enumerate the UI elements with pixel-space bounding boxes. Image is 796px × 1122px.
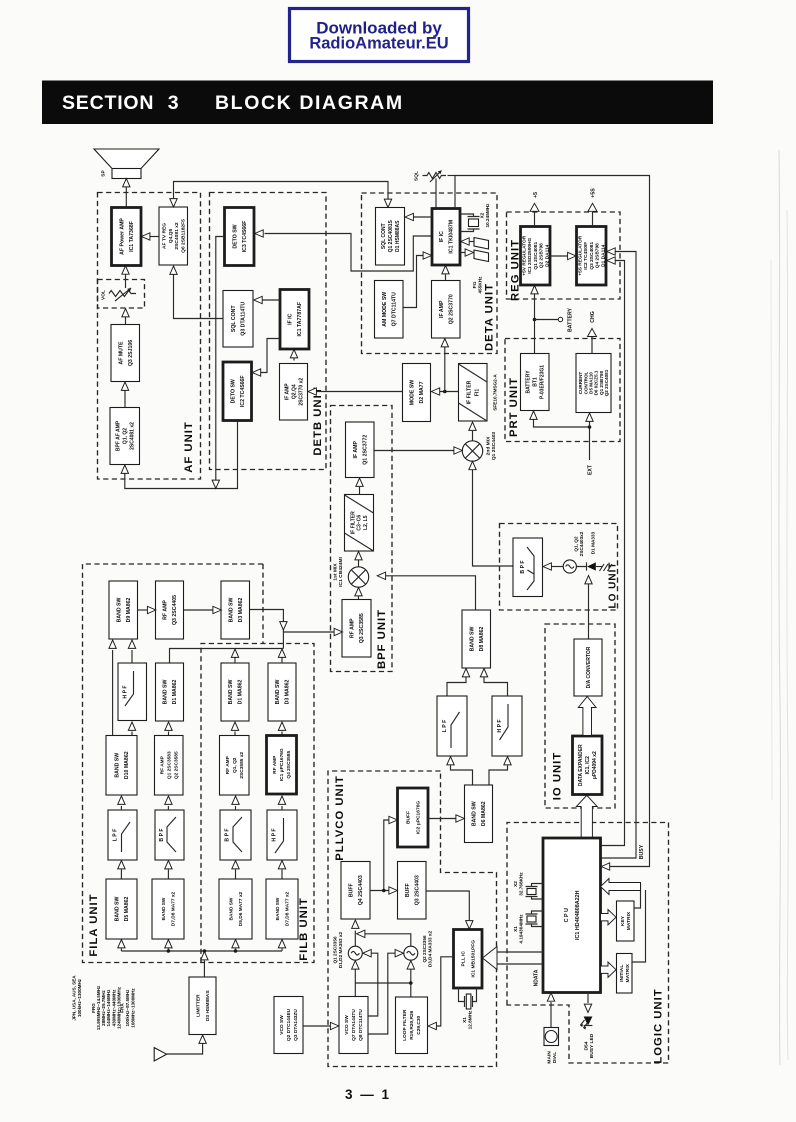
block H P F (LO) [492,696,522,756]
arrowhead into RF AMP BPF left [334,628,342,635]
wire junction to MODE SW [439,391,459,393]
arrowhead into D1b bottom [231,722,238,730]
block IF IC IC1 TA7787AF [280,290,309,350]
arrowhead CHG output [588,329,597,337]
mixer 1st MIX IC1 CB424MI [348,567,368,587]
unit box IO UNIT [545,624,615,808]
wire vco junction to BUFF IC2 [384,820,390,891]
unit box PRT UNIT [505,339,620,442]
svg-text:Q1 2SC3356D1,D2 MA353 x2: Q1 2SC3356D1,D2 MA353 x2 [332,932,343,969]
block L P F (FILA) [108,810,137,860]
block RF AMP Q3 2SC4405 [156,581,184,639]
svg-text:1st MIXIC1 CB424MI: 1st MIXIC1 CB424MI [332,557,344,587]
arrowhead into VOL pot [122,309,129,317]
arrowhead into band sw row5 [118,940,125,948]
wire IF IC to filter [460,252,466,254]
wire IF IC TKI0487M to DETO SW IC3 [265,234,433,272]
block MODE SW D2 MA77 [403,364,431,422]
oscillator Q1 Q2 LO [563,560,576,573]
arrowhead into 1st MIX right [377,572,385,579]
arrowhead into BUFF IC2 left [389,816,397,823]
wire into CURRENT CONTROL [589,422,591,428]
block DETO SW IC3 TC4S66F [225,208,255,266]
arrowhead +5S output [588,203,597,211]
wire D6 to HPF [489,766,508,786]
fat arrow DATA EXPANDER to D/A [578,697,596,736]
svg-text:BLOCK DIAGRAM: BLOCK DIAGRAM [215,92,404,114]
wire VCO2 merge [365,934,411,946]
svg-text:PLLVCO UNIT: PLLVCO UNIT [334,775,346,860]
wire bus riser [235,949,237,952]
block CURRENT CONTROL [576,354,611,413]
block DETO SW IC2 TC4S66F [223,362,252,421]
block INITIAL MATRIX [617,954,633,994]
wire VCO SW to VCO1 [368,953,378,1016]
svg-text:D/A CONVERTOR: D/A CONVERTOR [586,646,592,688]
block H P F (FILB) [267,810,297,860]
wire battery tap [535,319,559,321]
arrowhead led arrow [584,1004,591,1012]
wire FILA D3 to RF AMP BPF [250,610,335,649]
wire IF FILTER to IF AMP [359,487,361,495]
SQL potentiometer [423,173,447,179]
arrowhead into IF FILTER FI1 bottom [469,422,476,430]
block SQL CONT Q3 DTA114TU [223,291,253,348]
arrowhead into BUFF Q3 left [389,887,397,894]
svg-text:BATTERY: BATTERY [567,308,573,332]
wire VCO1 bottom link [355,963,411,998]
wire bus +5S line B [601,252,637,859]
arrowhead into band sw row5 [165,940,172,948]
svg-text:B P F: B P F [159,828,165,841]
main dial encoder [544,1028,559,1046]
block D/A CONVERTOR [574,639,602,696]
block SQL CONT Q1 D1 [376,208,405,266]
block LIMITTER D3 HSM88AS [189,977,216,1035]
svg-text:DETA UNIT: DETA UNIT [483,283,495,351]
block CPU IC1 HD404808A22H [543,838,601,993]
arrowhead into AF TV REG top [170,199,177,207]
svg-text:IO UNIT: IO UNIT [551,752,563,800]
block RF AMP Q1 Q2 3585x2 [220,736,250,796]
unit box LOGIC UNIT [507,823,669,1064]
wire 1st MIX to IF FILTER [358,560,360,567]
junction dot [167,949,171,953]
wire DETO SW IC3 output down [216,237,225,481]
arrowhead into AF TV REG bottom [170,266,177,274]
block BPF AF AMP Q1 Q2 [110,408,140,465]
svg-text:LOGIC UNIT: LOGIC UNIT [652,988,664,1063]
wire LPF riser to D8 [447,677,466,696]
svg-text:D54BUSY LED: D54BUSY LED [583,1033,595,1058]
arrowhead into band sw row5 [232,940,239,948]
wire HPF FILA to D9 [131,650,133,663]
wire battery rail [534,294,536,354]
arrowhead into band bus d1b [231,649,238,657]
block IF AMP Q1 2SC3772 [346,422,375,478]
arrowhead into AF line [212,480,219,488]
block BAND SW D8 MA862 [462,610,491,668]
arrowhead into DETO SW IC2 [252,369,260,376]
block BAND SW D3 MA862 b [268,663,296,721]
arrowhead into BUFF Q4 bottom [352,920,359,928]
svg-text:CHG: CHG [590,311,596,323]
svg-text:FRA100kHz~87.5MHz108MHz~1300MH: FRA100kHz~87.5MHz108MHz~1300MHz [120,988,136,1028]
wire KEY MATRIX loop [634,883,641,908]
arrowhead into IF IC bottom [442,266,449,274]
wire BUFF IC2 to BAND SW D6 [428,818,457,820]
arrowhead into IF AMP DETB right [308,388,316,395]
arrowhead into RF AMP 4405 [147,606,155,613]
unit box BPF UNIT [331,406,393,672]
svg-text:AF UNIT: AF UNIT [183,421,195,473]
svg-text:2nd MIXQ1 2SC4403: 2nd MIXQ1 2SC4403 [485,432,497,461]
block B P F (FILB) [220,810,251,860]
arrowhead into +5S REGULATOR right a [607,257,615,264]
wire DA convertor to LO [588,584,590,639]
svg-text:Q1, Q22SC4403x2: Q1, Q22SC4403x2 [573,531,584,556]
block IF AMP Q2 Q4 2SC3770 x2 [280,364,308,421]
wire SQL pot to IF IC [435,179,437,209]
junction dot [443,390,447,394]
block IF FILTER FI1 10.7MHz [459,364,488,422]
svg-text:B P F: B P F [520,560,526,573]
arrowhead into AF Power AMP bottom [122,266,129,274]
svg-text:3 — 1: 3 — 1 [345,1087,391,1102]
arrowhead into HPF FILA bottom [128,722,135,730]
svg-text:FI1455KHz: FI1455KHz [472,276,483,294]
wire BPF AF AMP to AF MUTE [124,391,126,408]
arrowhead into AF MUTE bottom [121,382,128,390]
wire D1b riser [234,658,236,664]
fat arrow CPU to INITIAL MATRIX [601,962,617,977]
arrowhead into speaker [123,179,130,187]
unit box LO UNIT [500,524,618,611]
wire filter to IF IC [468,241,474,243]
arrowhead into +5S REGULATOR [568,252,576,259]
crystal X1 4.194304MHz [526,911,544,927]
antenna symbol [154,1048,166,1061]
wire +5 supply arrow [534,212,536,227]
wire SQL CONT Q3 to AF TV REG [174,275,224,319]
arrowhead into CPU busy pin [601,863,609,870]
arrowhead into row4 d5 [118,861,125,869]
arrowhead into BPF AF AMP bottom [121,465,128,473]
svg-text:SP: SP [101,170,107,177]
wire junction up to IF AMP DETA [444,347,446,392]
wire row4 to row3 bpf b [235,806,237,810]
wire AF Power AMP to speaker [125,186,127,208]
scan bleed-through streaks (decorative) [779,150,781,1065]
block BUFF Q3 2SC4403 [398,862,427,920]
arrowhead into D9 bottom right [128,640,135,648]
arrowhead band bus down arrow [280,622,287,630]
svg-text:EXT: EXT [587,464,593,475]
arrowhead into +5S REGULATOR right b [607,248,615,255]
arrowhead into VCO1 right [363,950,371,957]
svg-text:SQL: SQL [414,171,420,181]
ceramic filter FI1 [474,238,489,262]
wire row4 to row3 lpf a [120,806,122,810]
arrowhead into D1a bottom [165,722,172,730]
svg-text:CURRENTCONTROLD5 MA110D6 02CZ5: CURRENTCONTROLD5 MA110D6 02CZ5.1Q1 2SB79… [578,369,609,396]
arrowhead into CURRENT CONTROL bottom [586,413,593,421]
arrowhead into 1st MIX bottom [355,588,362,596]
block BAND SW D6 MA862 [465,785,493,843]
svg-text:JPN, USA, AUS, SEA100kHz~1300M: JPN, USA, AUS, SEA100kHz~1300MHz [71,975,82,1021]
ground hatch [600,564,613,571]
wire CPU to PLL IC data b [497,963,543,965]
svg-text:H P F: H P F [122,685,128,698]
arrowhead into SQL CONT Q1 [405,213,413,220]
arrowhead into 2nd MIX bottom [469,461,476,469]
arrowhead into CPU bottom [547,993,554,1001]
wire LO BPF to 2nd MIX [473,470,514,566]
wire INITIAL MATRIX loop [632,890,646,962]
block KEY MATRIX [617,901,635,941]
block RF AMP Q1 Q2 3583 [155,736,184,796]
crystal X2 32.768KHz [526,884,544,900]
arrowhead into VCO1 riser [357,930,365,937]
wire row4 to row3 hpf b [281,806,283,810]
svg-text:Q2 2SC3356D3,D4 MA333 x2: Q2 2SC3356D3,D4 MA333 x2 [422,931,433,968]
svg-text:INITIALMATRIX: INITIALMATRIX [619,963,631,982]
block PLL IC IC1 MB1501PFG [454,930,483,989]
wire D10 to D9 left [112,650,114,736]
wire VCO SW to VCO2 [368,953,396,1034]
oscillator VCO2 Q2 2SC3356 [404,946,418,960]
wire CPU to busy led [587,993,589,1004]
arrowhead into row3 lpf a [118,796,125,804]
arrowhead into VCO2 bottom [407,961,414,969]
arrowhead into LIMITTER bottom [199,1035,206,1043]
oscillator VCO1 Q1 2SC3356 [348,946,362,960]
svg-text:SECTION 3: SECTION 3 [62,92,179,114]
wire bus riser [167,949,169,952]
VOL control box [98,280,145,309]
arrowhead into IF FILTER bottom [355,552,362,560]
svg-text:RadioAmateur.EU: RadioAmateur.EU [309,35,448,53]
arrowhead into filter [465,249,473,256]
junction dot [382,889,386,893]
block RF AMP Q3 2SC3585 [342,600,371,658]
block BAND SW D10 MA862 [106,736,137,796]
wire CHG line [591,337,593,354]
svg-text:X14.194304MHz: X14.194304MHz [513,914,524,944]
crystal X2 10.245MHz [460,214,480,232]
wire D10 to HPF FILA [131,732,133,736]
wire RF AMP to 1st MIX [358,596,360,600]
svg-text:FILA UNIT: FILA UNIT [88,893,100,956]
arrowhead into IF IC left [423,252,431,259]
block BAND SW D3 MA862 a [221,581,250,639]
arrowhead into LPF bottom [447,757,454,765]
wire BUFF Q4 to BUFF Q3 [370,890,390,892]
block LOOP FILTER [396,997,428,1054]
block +5S REGULATOR [577,227,607,286]
wire bus +5S line A [601,261,625,846]
wire AF MUTE to pot [125,317,127,325]
block BUFF Q4 2SC4403 [341,862,370,920]
wire +5S supply arrow [592,212,594,227]
block BAND SW D9 MA862 [109,581,138,639]
wire D3b riser [281,658,283,664]
arrowhead into HPF bottom [504,757,511,765]
arrowhead into BAND SW D6 left [456,815,464,822]
unit box AF UNIT [98,193,201,480]
arrowhead into 2nd MIX left [454,447,462,454]
arrowhead into D8 bottom left [462,669,469,677]
speaker SP [94,149,159,179]
arrowhead into IF IC right [461,238,469,245]
arrowhead into IF AMP DETA bottom [441,339,448,347]
arrowhead into row3 hpf b [278,796,285,804]
block AM MODE SW Q7 DTC114TU [375,281,404,339]
svg-text:B P F: B P F [224,828,230,841]
svg-text:SFE10.7MSG2-A: SFE10.7MSG2-A [493,374,498,411]
svg-text:BPF UNIT: BPF UNIT [376,609,388,669]
svg-text:L P F: L P F [442,720,448,733]
wire IF IC TA7787AF to SQL CONT Q3 [262,299,280,301]
wire MODE SW to IF AMP DETB [316,391,403,393]
wire VCO SW ext to VCO SW [303,1025,331,1027]
mixer 2nd MIX Q1 2SC4403 [462,441,482,461]
arrowhead into BATTERY bottom [530,411,537,419]
svg-text:H P F: H P F [497,719,503,732]
svg-text:FRG13.995MHz~14.5MHz28MHz~29.7: FRG13.995MHz~14.5MHz28MHz~29.7MHz144MHz~… [91,985,122,1030]
junction dot [234,949,238,953]
wire pot to AF Power AMP [125,274,127,288]
wire row5 to row4 d5 [120,870,122,880]
block BAND SW D1 MA862 b [221,663,249,721]
arrowhead into LOOP FILTER right [428,1022,436,1029]
unit box DETA UNIT [362,193,498,354]
arrowhead into row4 d5d6 [232,861,239,869]
arrowhead into PLL IC top [466,921,473,929]
block BUFF IC2 uPC1676G [398,788,429,847]
wire LO osc to BPF [551,566,563,568]
wire EXT line [534,411,590,461]
arrowhead into IF AMP BPF bottom [356,478,363,486]
arrowhead +5 output [530,203,539,211]
block RF AMP IC1 uPC1676G [267,736,297,795]
unit box FILA UNIT [83,564,264,963]
wire antenna to limitter [167,1044,203,1055]
wire +5V to +5S link [550,255,568,257]
svg-text:DETB UNIT: DETB UNIT [312,386,324,455]
wire row4 to row3 bpf a [167,806,169,810]
LED D54 BUSY [580,1017,592,1030]
wire AF TV REG top feed [174,182,389,201]
wire PLL IC to LOOP FILTER [436,957,454,1026]
block VCO SW Q7 Q8 [339,997,368,1054]
svg-text:H P F: H P F [271,828,277,841]
block +5V REGULATOR [521,227,551,286]
wire IF IC TA7787AF to DETO SW IC2 [261,339,280,373]
arrowhead into D9 bottom left [109,640,116,648]
arrowhead into MODE SW right [431,388,439,395]
svg-text:MAINDIAL: MAINDIAL [546,1051,558,1064]
block BAND SW D5 D6 [219,879,252,939]
fat arrow CPU to KEY MATRIX [601,910,617,925]
wire VCO1 to BUFF Q4 [354,931,356,947]
fat arrow CPU to DATA EXPANDER [576,795,597,838]
svg-text:D1 MA333: D1 MA333 [591,531,596,554]
arrowhead into row4 d7d8a [165,861,172,869]
section title banner [42,81,713,125]
wire 2nd MIX to IF FILTER FI1 [472,431,474,441]
wire CPU to PLL IC data a [497,951,543,953]
arrowhead into D8 bottom right [480,669,487,677]
wire limitter to bus [203,961,205,978]
block L P F (LO) [437,696,467,756]
svg-text:NDATA: NDATA [533,969,539,986]
wire antenna bus [121,950,282,952]
wire RF row3b to D1b [234,732,236,736]
arrowhead into BAND SW D3 [213,606,221,613]
arrowhead into antenna bus [201,952,208,960]
block BAND SW D1 MA862 a [156,663,184,721]
arrowhead into LO BPF right [543,563,551,570]
svg-text:PRT UNIT: PRT UNIT [508,377,520,437]
arrowhead into band sw row5 [278,940,285,948]
wire RF AMP to D3 [184,609,214,611]
wire RF row3a to D1a [168,732,170,736]
block BAND SW D7 D8 b [266,879,298,939]
svg-text:+5: +5 [533,192,539,198]
block H P F (FILA) [118,663,147,721]
wire RF row3c to D3b [281,732,283,736]
junction dot [533,318,537,322]
wire bus riser [281,949,283,952]
block AF MUTE Q3 2SJ106 [111,325,140,382]
arrowhead into row3 bpf b [232,796,239,804]
wire D9 to RF AMP [138,609,149,611]
arrowhead into row4 d7d8b [278,861,285,869]
block DATA EXPANDER [573,736,603,795]
arrowhead into LO diode node [585,576,592,584]
svg-text:FILB UNIT: FILB UNIT [298,897,310,961]
downloaded-by badge [290,9,469,62]
wire row5 to row4 d5d6 [235,870,237,880]
wire bus riser [120,949,122,952]
crystal X1 12.8MHz [459,988,477,1009]
fat arrow CPU to PLL IC [483,947,498,970]
block AF Power AMP IC1 TA7368F [112,208,142,266]
arrowhead into IF IC TA7787AF bottom [290,350,297,358]
junction dot [409,981,413,985]
arrowhead into DETA SQL CONT top [384,199,391,207]
unit box FILB UNIT [201,644,314,963]
arrowhead into +5V REGULATOR bottom [531,286,538,294]
wire IF IC to SQL CONT Q1 [413,216,432,218]
block BAND SW D5 MA862 [106,879,137,939]
arrowhead into row3 bpf a [165,796,172,804]
wire VCO2 bottom [410,970,412,984]
wire MAIN DIAL to CPU [550,1002,552,1028]
block IF FILTER C3-C6 L2 L5 [345,495,374,552]
arrowhead into D3b bottom [278,722,285,730]
junction dot [588,425,592,429]
wire D8 to 1st MIX [385,576,476,610]
wire BUFF Q3 to PLL IC [426,891,469,921]
block BATTERY BT1 [521,354,550,411]
VOL potentiometer [109,291,136,297]
fat arrow matrices to CPU [601,879,641,895]
wire D6 to LPF [451,766,473,786]
arrowhead into SQL CONT Q3 [254,296,262,303]
wire IF AMP to IF IC bottom [445,275,447,281]
